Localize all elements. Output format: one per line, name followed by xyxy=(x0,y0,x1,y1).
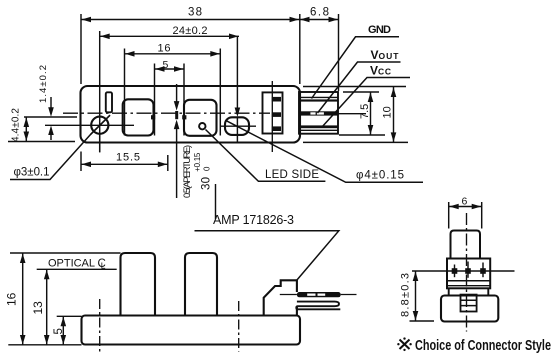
svg-text:13: 13 xyxy=(31,301,45,315)
W2 chip nub xyxy=(182,115,186,119)
label LED SIDE with leader xyxy=(206,130,326,182)
sensor body outline xyxy=(81,86,301,143)
phi4 barrel feature xyxy=(225,117,249,135)
dimension 5 (side) xyxy=(53,316,82,345)
plug inner line top xyxy=(299,96,338,98)
dimension 15.5 xyxy=(81,134,168,171)
mounting hole xyxy=(91,117,108,134)
svg-text:AMP 171826-3: AMP 171826-3 xyxy=(213,213,294,227)
bottom block xyxy=(441,296,498,322)
hole slash xyxy=(91,115,111,134)
svg-text:16: 16 xyxy=(158,42,171,54)
svg-text:8.8±0.3: 8.8±0.3 xyxy=(400,273,412,317)
hole axis line xyxy=(45,124,134,126)
dimension 1.4±0.2 xyxy=(38,65,54,140)
label phi3±0.1 with leader xyxy=(10,115,110,179)
svg-text:16: 16 xyxy=(5,292,19,306)
svg-text:6.8: 6.8 xyxy=(310,7,329,19)
connector vertical centerline xyxy=(271,81,273,152)
svg-text:5: 5 xyxy=(53,328,65,334)
svg-text:OPTICAL: OPTICAL xyxy=(48,258,95,270)
svg-text:0: 0 xyxy=(203,166,212,171)
svg-text:4.4±0.2: 4.4±0.2 xyxy=(11,108,22,142)
top block xyxy=(451,231,481,259)
contact pad right xyxy=(480,263,486,278)
svg-text:Choice of Connector Style: Choice of Connector Style xyxy=(415,338,551,354)
dimension 16 (side) xyxy=(5,253,121,345)
svg-text:+0.15: +0.15 xyxy=(193,152,202,172)
reference mark symbol xyxy=(397,337,412,351)
svg-text:GND: GND xyxy=(368,24,391,36)
svg-text:10: 10 xyxy=(382,106,394,118)
mid block xyxy=(447,259,490,289)
dimension 24±0.2 xyxy=(100,25,239,152)
label VCC with leader xyxy=(322,64,411,128)
svg-text:6: 6 xyxy=(462,196,468,208)
plug body (top view right) xyxy=(299,92,338,134)
dimension 10 xyxy=(382,87,397,142)
mid block inner line xyxy=(447,280,490,282)
svg-text:V: V xyxy=(370,64,378,78)
tower 2 xyxy=(185,253,217,316)
label VOUT with leader xyxy=(318,48,401,113)
window W2 xyxy=(184,100,217,136)
aperture slit leader below xyxy=(174,120,180,198)
pin centerline xyxy=(280,294,357,296)
GND contact bar xyxy=(299,99,338,101)
chip reference line xyxy=(24,116,77,118)
dimension 5 xyxy=(155,59,185,136)
contact pad left xyxy=(452,265,458,278)
svg-text:0.5(APERTURE): 0.5(APERTURE) xyxy=(182,145,193,198)
svg-text:φ4±0.15: φ4±0.15 xyxy=(356,170,404,182)
dimension 4.4±0.2 xyxy=(8,108,75,142)
end view centerline xyxy=(466,213,468,332)
svg-text:24±0.2: 24±0.2 xyxy=(173,25,208,37)
svg-text:15.5: 15.5 xyxy=(116,152,140,164)
label GND with leader xyxy=(312,24,400,99)
connector contact bar bottom xyxy=(272,126,281,131)
contacts axis line xyxy=(412,270,515,272)
label 0.5(APERTURE) xyxy=(182,145,193,198)
barrel horizontal centerline xyxy=(220,125,256,127)
W1 chip nub xyxy=(151,115,155,119)
mid block inner line 2 xyxy=(447,285,490,287)
aperture slit leader above xyxy=(174,84,180,111)
window W1 xyxy=(123,99,154,135)
base plate xyxy=(82,316,301,345)
connector contact bar middle xyxy=(272,112,281,117)
connector contact bar top xyxy=(272,97,281,102)
dimension 13 (side) xyxy=(31,269,117,345)
dimension 38 xyxy=(81,7,300,85)
tower 1 xyxy=(121,253,156,316)
main horizontal centerline xyxy=(63,112,270,114)
connector housing (top view) xyxy=(263,92,283,133)
upper pin white dashes xyxy=(307,294,315,296)
svg-text:OUT: OUT xyxy=(379,51,400,61)
aperture hole xyxy=(199,123,205,129)
dimension 7.5 xyxy=(339,92,385,135)
upper pin (solid) xyxy=(297,292,341,297)
svg-text:V: V xyxy=(371,48,379,62)
label phi4±0.15 with leader xyxy=(226,121,423,183)
plug inner line bottom xyxy=(299,129,338,131)
dimension 6.8 xyxy=(300,7,339,92)
hole centerline left xyxy=(99,299,101,352)
svg-text:CC: CC xyxy=(378,67,391,77)
window2 right extension line xyxy=(215,184,217,219)
svg-text:5: 5 xyxy=(163,59,169,71)
base bottom extension line xyxy=(8,344,81,346)
dimension 6 (end view) xyxy=(449,196,482,229)
VOUT contact bar xyxy=(299,111,338,115)
dimension 16 xyxy=(125,42,221,135)
hole centerline right xyxy=(238,301,240,352)
svg-text:7.5: 7.5 xyxy=(359,104,371,119)
label OPTICAL CL xyxy=(48,258,106,271)
barrel vertical centerline with arrow xyxy=(235,36,241,143)
svg-text:38: 38 xyxy=(188,7,202,19)
svg-text:LED SIDE: LED SIDE xyxy=(265,169,319,181)
dimension 8.8±0.3 xyxy=(400,271,435,321)
hairpin prong xyxy=(296,302,340,310)
ladder insert xyxy=(461,295,477,312)
body top extension line (right) xyxy=(303,86,406,88)
aperture slit xyxy=(175,111,178,119)
svg-text:φ3±0.1: φ3±0.1 xyxy=(14,167,50,179)
connector housing profile xyxy=(264,280,297,315)
label 30 +0.15/0 xyxy=(193,152,213,190)
VOUT bar white dashes xyxy=(310,112,315,114)
svg-text:1.4±0.2: 1.4±0.2 xyxy=(38,65,49,103)
contact pad middle xyxy=(465,262,471,278)
neck walls xyxy=(449,288,489,295)
VCC contact bar xyxy=(299,125,338,128)
slot xyxy=(106,92,112,112)
svg-text:30: 30 xyxy=(201,177,213,190)
body bottom extension line (right) xyxy=(303,141,408,143)
centerline segment right of plug xyxy=(338,113,366,115)
label AMP 171826-3 with leader xyxy=(195,213,339,281)
